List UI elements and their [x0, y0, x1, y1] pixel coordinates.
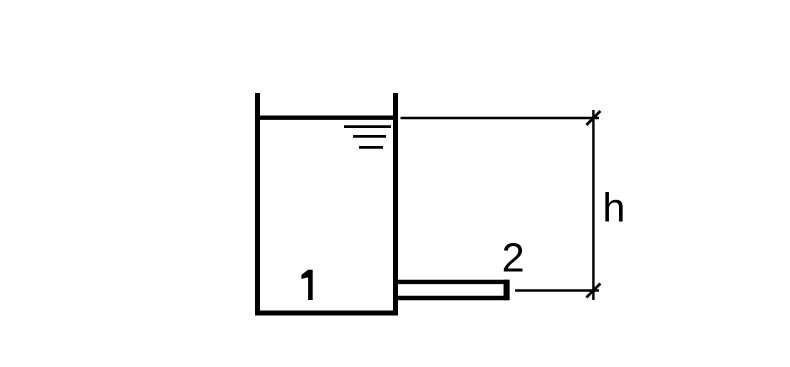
outlet pipe closed right end — [504, 280, 510, 301]
dimension tick top — [586, 111, 600, 125]
svg-text:h: h — [602, 184, 625, 230]
tank bottom — [255, 311, 398, 316]
dimension extension line top (water surface level) — [401, 117, 600, 119]
outlet pipe bottom wall — [398, 296, 508, 300]
dimension extension line bottom (pipe level) — [515, 289, 599, 291]
water level symbol line 2 — [353, 135, 386, 138]
svg-text:2: 2 — [502, 235, 525, 281]
dimension line h (vertical) — [592, 110, 594, 300]
tank right wall — [393, 93, 398, 316]
water level symbol line 3 — [359, 146, 383, 149]
water surface line — [259, 115, 394, 119]
dimension tick bottom — [586, 284, 600, 298]
tank left wall — [255, 93, 260, 316]
outlet pipe top wall — [398, 280, 508, 284]
label 1 (tank) — [301, 270, 312, 300]
water level symbol line 1 — [344, 125, 391, 128]
